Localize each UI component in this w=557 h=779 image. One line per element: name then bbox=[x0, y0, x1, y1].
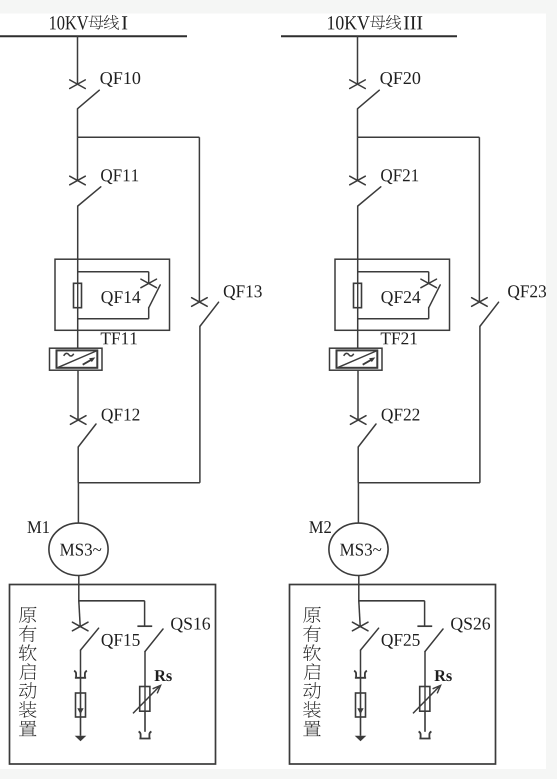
wire bypass top bbox=[78, 271, 149, 273]
wire resistor down bbox=[144, 711, 146, 732]
wire converter to QF12 bbox=[77, 370, 79, 420]
motor M2 MS3~ bbox=[329, 523, 388, 575]
wire QF25 down bbox=[360, 650, 362, 671]
label soft-start device (Chinese) column 1 bbox=[19, 607, 37, 623]
wire main to QF11 bbox=[77, 137, 79, 180]
resistor Rs column 1 bbox=[140, 687, 150, 712]
label M1 bbox=[27, 521, 49, 533]
breaker QF12 bbox=[70, 416, 86, 425]
wire bus drop column 2 bbox=[357, 36, 359, 84]
bus I line bbox=[0, 35, 187, 37]
wire to QF15 bbox=[79, 601, 80, 627]
page margin right bbox=[546, 0, 557, 779]
surge arrester column 1 bbox=[76, 693, 86, 717]
breaker QF13 bbox=[192, 298, 208, 307]
breaker QF25 bbox=[352, 622, 368, 631]
node branch junction bbox=[78, 136, 200, 138]
label 10KV bus III bbox=[328, 16, 370, 30]
surge arrester column 2 bbox=[356, 693, 366, 717]
earth arrow column 1 bbox=[75, 736, 87, 742]
reactor in TF11 bbox=[74, 283, 82, 307]
wire main to QF21 bbox=[357, 137, 359, 180]
transformer box TF11 bbox=[55, 259, 170, 330]
wire to QF25 bbox=[359, 601, 360, 627]
earth arrow column 2 bbox=[355, 736, 367, 742]
node branch junction bbox=[358, 136, 480, 138]
wire QF10 to junction bbox=[77, 108, 79, 137]
label TF11 bbox=[101, 332, 137, 344]
wire bypass top bbox=[358, 271, 429, 273]
label 10KV bus I bbox=[50, 16, 88, 30]
breaker QF22 bbox=[350, 416, 366, 425]
breaker QF24 bbox=[421, 279, 437, 288]
node motor junction bbox=[358, 482, 480, 484]
earthing switch QS26 bbox=[417, 625, 432, 627]
wire QF23 to lower junction bbox=[479, 326, 481, 483]
transformer box TF21 bbox=[335, 259, 450, 330]
wire to QS26 bbox=[424, 601, 426, 626]
soft-start device box column 2 bbox=[290, 585, 496, 765]
label Rs column 2 bbox=[434, 670, 451, 681]
wire QS16 to resistor bbox=[144, 651, 146, 686]
wire QF20 to junction bbox=[357, 108, 359, 137]
connector plug QF15 branch bbox=[74, 671, 87, 678]
wire QF11 into TF box bbox=[77, 206, 79, 348]
connector plug QS26 branch bbox=[419, 731, 432, 738]
breaker QF23 bbox=[472, 298, 488, 307]
motor M1 MS3~ bbox=[49, 523, 108, 575]
wire QF15 down bbox=[80, 650, 82, 671]
node T split bbox=[359, 600, 425, 602]
wire QF12 to motor junction bbox=[77, 447, 79, 483]
reactor in TF21 bbox=[354, 283, 362, 307]
node motor junction bbox=[78, 482, 200, 484]
connector plug QF25 branch bbox=[354, 671, 367, 678]
breaker QF11 bbox=[70, 176, 86, 185]
resistor Rs column 2 bbox=[420, 687, 430, 712]
page margin top bbox=[0, 0, 557, 14]
converter (soft starter) column 1 bbox=[50, 348, 103, 370]
earthing switch QS16 bbox=[137, 625, 152, 627]
bus III line bbox=[281, 35, 457, 37]
wire converter to QF22 bbox=[357, 370, 359, 420]
wire motor to soft-start box bbox=[78, 575, 80, 601]
label Rs column 1 bbox=[154, 670, 171, 681]
label soft-start device (Chinese) column 2 bbox=[303, 607, 321, 623]
breaker QF14 bbox=[141, 279, 157, 288]
page margin bottom bbox=[0, 769, 557, 779]
wire bus drop column 1 bbox=[77, 36, 79, 84]
wire bypass branch down bbox=[478, 137, 480, 302]
label M2 bbox=[309, 521, 331, 533]
wire QS26 to resistor bbox=[424, 651, 426, 686]
wire motor to soft-start box bbox=[358, 575, 360, 601]
wire QF21 into TF box bbox=[357, 206, 359, 348]
breaker QF21 bbox=[350, 176, 366, 185]
wire QF22 to motor junction bbox=[357, 447, 359, 483]
breaker QF10 bbox=[70, 80, 86, 89]
converter (soft starter) column 2 bbox=[330, 348, 383, 370]
wire junction to motor bbox=[357, 483, 359, 523]
wire bypass bottom bbox=[428, 307, 430, 319]
wire junction to motor bbox=[77, 483, 79, 523]
breaker QF20 bbox=[350, 80, 366, 89]
wire to QS16 bbox=[144, 601, 146, 626]
wire QF13 to lower junction bbox=[199, 326, 201, 483]
wire resistor down bbox=[424, 711, 426, 732]
label TF21 bbox=[381, 332, 417, 344]
wire bypass branch down bbox=[198, 137, 200, 302]
node T split bbox=[79, 600, 145, 602]
connector plug QS16 branch bbox=[139, 731, 152, 738]
wire bypass bottom bbox=[148, 307, 150, 319]
soft-start device box column 1 bbox=[10, 585, 216, 765]
breaker QF15 bbox=[72, 622, 88, 631]
